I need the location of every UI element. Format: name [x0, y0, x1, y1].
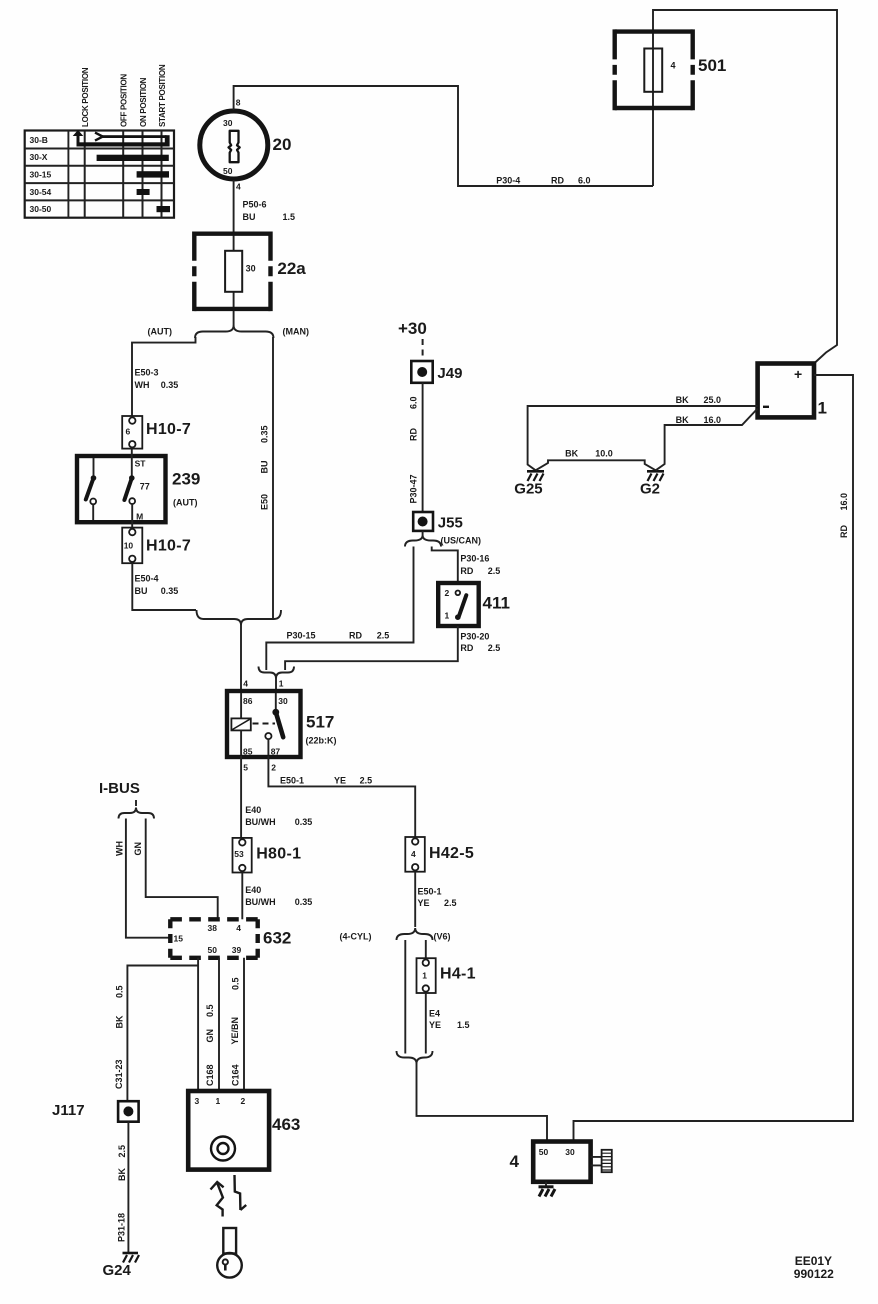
control module 632 — [170, 919, 291, 958]
starter pinion gear — [591, 1150, 612, 1172]
svg-text:2.5: 2.5 — [488, 566, 501, 576]
svg-text:2.5: 2.5 — [444, 898, 457, 908]
svg-text:2: 2 — [445, 588, 450, 598]
merge brace AUT/MAN above relay — [197, 610, 282, 625]
rotated labels RD 16.0 — [839, 493, 849, 538]
svg-text:G24: G24 — [103, 1262, 132, 1279]
split brace below 22a (AUT)/(MAN) — [148, 326, 310, 339]
svg-text:30: 30 — [246, 263, 256, 273]
svg-text:E50-3: E50-3 — [135, 368, 159, 378]
wire US/CAN branch to switch 411 — [432, 547, 458, 585]
svg-text:BK: BK — [117, 1168, 127, 1181]
svg-text:P31-18: P31-18 — [117, 1213, 127, 1242]
svg-text:0.35: 0.35 — [161, 586, 179, 596]
svg-text:(V6): (V6) — [434, 931, 451, 941]
svg-text:GN: GN — [205, 1029, 215, 1043]
wire label BK 25.0 — [676, 395, 721, 405]
table bar 30-50 — [157, 206, 171, 212]
svg-text:1: 1 — [422, 971, 427, 981]
connector H4-1 — [417, 958, 476, 993]
fuse 22a — [194, 232, 306, 312]
svg-text:YE: YE — [418, 898, 430, 908]
wire merge to relay pin 1 — [275, 677, 277, 691]
svg-text:2.5: 2.5 — [377, 631, 390, 641]
merge brace 4-CYL/V6 — [397, 1051, 433, 1064]
wire 411 pin 1 P30-20 to relay — [285, 626, 458, 670]
svg-text:BU/WH: BU/WH — [245, 897, 276, 907]
wire fuse 501 to battery plus — [653, 10, 837, 364]
svg-text:16.0: 16.0 — [839, 493, 849, 511]
wire 632 pin 50 to 463 pin 1 — [218, 958, 220, 1091]
split brace below J55 (US/CAN) — [405, 531, 481, 547]
node I-BUS — [99, 780, 154, 819]
rotated labels E50 BU 0.35 — [260, 425, 270, 510]
svg-text:4: 4 — [510, 1152, 520, 1171]
wire WH to 632 pin 15 — [126, 819, 170, 938]
wire label E40 BU/WH 0.35 — [245, 805, 312, 827]
svg-text:6: 6 — [126, 427, 131, 437]
svg-text:H80-1: H80-1 — [256, 846, 301, 863]
svg-text:H4-1: H4-1 — [440, 966, 476, 983]
remote key symbol — [217, 1228, 242, 1278]
svg-text:2.5: 2.5 — [117, 1145, 127, 1158]
wire V6 branch to H4-1 — [425, 940, 427, 958]
svg-text:25.0: 25.0 — [704, 395, 722, 405]
svg-text:BK: BK — [676, 395, 689, 405]
wire label E50-1 YE 2.5 — [280, 776, 372, 786]
svg-text:WH: WH — [114, 841, 124, 856]
svg-text:239: 239 — [172, 470, 200, 489]
svg-text:J55: J55 — [438, 515, 463, 532]
svg-text:8: 8 — [236, 98, 241, 108]
svg-text:RD: RD — [409, 428, 419, 441]
svg-text:+: + — [794, 366, 802, 382]
svg-text:E50-1: E50-1 — [280, 776, 304, 786]
table row labels 30-B 30-X 30-15 30-54 30-50 — [30, 135, 52, 214]
wire relay pin 2 to H42-5 — [268, 756, 415, 837]
connector H10-7 pin 6 — [122, 416, 191, 449]
svg-text:(MAN): (MAN) — [283, 326, 310, 336]
wire label BK 10.0 — [565, 449, 613, 459]
wire H42-5 down to split — [414, 872, 416, 927]
svg-text:20: 20 — [273, 135, 292, 154]
svg-text:H10-7: H10-7 — [146, 538, 191, 555]
svg-text:990122: 990122 — [794, 1267, 834, 1281]
svg-text:I-BUS: I-BUS — [99, 780, 140, 797]
svg-text:30-15: 30-15 — [30, 170, 52, 180]
svg-text:LOCK POSITION: LOCK POSITION — [81, 67, 90, 127]
wire 4-CYL branch — [404, 940, 406, 1054]
ground G2 — [640, 471, 664, 497]
ignition switch 20 — [200, 98, 292, 192]
battery 1 — [758, 364, 827, 418]
wire key pin 4 to fuse 22a — [233, 180, 235, 326]
table bar 30-B with return arrow — [73, 130, 170, 147]
relay 517 switch contact — [265, 693, 283, 755]
svg-text:GN: GN — [133, 842, 143, 856]
svg-text:53: 53 — [234, 849, 244, 859]
svg-text:4: 4 — [671, 61, 676, 71]
wire H80-1 to 632 pin 4 — [241, 873, 243, 920]
wire relay pin 5 to H80-1 — [240, 756, 242, 838]
svg-text:BU: BU — [243, 212, 256, 222]
svg-text:RD: RD — [349, 631, 362, 641]
wire label P30-15 RD 2.5 — [287, 631, 390, 641]
junction J117 — [52, 1101, 139, 1122]
wire label E50-1 YE 2.5 lower — [418, 887, 457, 908]
wire AUT branch to H10-7 — [132, 337, 196, 416]
svg-text:EE01Y: EE01Y — [795, 1254, 832, 1268]
ground G24 — [103, 1253, 140, 1279]
relay 517 coil — [231, 693, 275, 755]
svg-text:BK: BK — [565, 449, 578, 459]
svg-text:85: 85 — [243, 747, 253, 757]
svg-text:1.5: 1.5 — [283, 212, 296, 222]
junction J49 — [411, 361, 462, 383]
svg-text:10.0: 10.0 — [595, 449, 613, 459]
connector H42-5 — [405, 837, 474, 872]
svg-text:P50-6: P50-6 — [243, 200, 267, 210]
svg-text:E50-4: E50-4 — [135, 574, 159, 584]
wire J49 to J55 — [422, 383, 424, 512]
switch 411 — [438, 583, 510, 626]
svg-text:E50-1: E50-1 — [418, 887, 442, 897]
svg-text:0.5: 0.5 — [231, 977, 241, 990]
svg-text:RD: RD — [460, 643, 473, 653]
svg-text:30-X: 30-X — [30, 152, 48, 162]
svg-text:(AUT): (AUT) — [173, 498, 198, 508]
svg-text:RD: RD — [551, 176, 564, 186]
wire merge to relay 517 pin 4 — [240, 624, 242, 691]
svg-text:BU: BU — [135, 586, 148, 596]
svg-text:0.35: 0.35 — [161, 380, 179, 390]
svg-text:30-54: 30-54 — [30, 187, 52, 197]
ignition switch unit 239 — [77, 449, 200, 528]
svg-text:3: 3 — [195, 1096, 200, 1106]
svg-text:J117: J117 — [52, 1102, 85, 1119]
svg-text:H10-7: H10-7 — [146, 421, 191, 438]
svg-text:22a: 22a — [277, 259, 306, 278]
connector H10-7 pin 10 — [122, 528, 191, 564]
svg-text:87: 87 — [271, 747, 281, 757]
svg-text:(AUT): (AUT) — [148, 326, 173, 336]
relay 517 — [227, 679, 337, 773]
svg-text:2: 2 — [241, 1096, 246, 1106]
svg-text:1.5: 1.5 — [457, 1020, 470, 1030]
svg-text:BU: BU — [260, 461, 270, 474]
rotated labels BK 2.5 P31-18 — [117, 1145, 127, 1242]
svg-text:E4: E4 — [429, 1009, 440, 1019]
wire label E4 YE 1.5 — [429, 1009, 470, 1030]
junction J55 — [413, 512, 463, 532]
wire 632 pin 39 to 463 pin 2 — [243, 958, 245, 1091]
svg-text:0.35: 0.35 — [260, 425, 270, 443]
rotated labels YE/BN 0.5 C164 — [230, 977, 240, 1086]
svg-text:1: 1 — [818, 399, 827, 418]
svg-text:M: M — [136, 511, 143, 521]
key position table grid — [25, 131, 174, 218]
wire label BK 16.0 — [676, 415, 721, 425]
svg-text:(22b:K): (22b:K) — [306, 736, 337, 746]
svg-text:1: 1 — [216, 1096, 221, 1106]
svg-text:4: 4 — [243, 679, 248, 689]
svg-text:2: 2 — [271, 763, 276, 773]
svg-text:38: 38 — [208, 923, 218, 933]
svg-text:501: 501 — [698, 56, 726, 75]
svg-text:5: 5 — [243, 763, 248, 773]
svg-text:50: 50 — [223, 166, 233, 176]
svg-text:86: 86 — [243, 696, 253, 706]
wire label E50-4 BU 0.35 — [135, 574, 179, 596]
svg-text:2.5: 2.5 — [488, 643, 501, 653]
svg-text:4: 4 — [236, 923, 241, 933]
svg-text:463: 463 — [272, 1115, 300, 1134]
svg-text:P30-47: P30-47 — [409, 474, 419, 503]
svg-text:RD: RD — [460, 566, 473, 576]
wire label E50-3 WH 0.35 — [135, 368, 179, 390]
svg-text:4: 4 — [236, 182, 241, 192]
connector H80-1 — [233, 838, 302, 873]
svg-text:P30-4: P30-4 — [496, 176, 520, 186]
drawing id EE01Y 990122 — [794, 1254, 834, 1281]
svg-text:+30: +30 — [398, 319, 427, 338]
svg-text:P30-16: P30-16 — [460, 554, 489, 564]
svg-text:E40: E40 — [245, 805, 261, 815]
fuse 501 — [615, 29, 727, 110]
svg-text:0.35: 0.35 — [295, 897, 313, 907]
split brace (4-CYL)/(V6) — [340, 928, 451, 941]
wire from H10-7 pin 10 down and right — [132, 563, 196, 610]
svg-text:39: 39 — [232, 945, 242, 955]
rotated labels P30-47 RD 6.0 — [409, 396, 419, 503]
wire battery minus BK 16.0 to G2 — [656, 409, 758, 471]
rotated labels BK 0.5 — [114, 985, 124, 1089]
svg-text:0.5: 0.5 — [205, 1004, 215, 1017]
wire H4-1 down — [425, 993, 427, 1054]
svg-text:YE/BN: YE/BN — [230, 1017, 240, 1045]
table bar 30-54 — [137, 189, 150, 195]
svg-text:30: 30 — [278, 696, 288, 706]
svg-text:30: 30 — [223, 118, 233, 128]
svg-text:G25: G25 — [514, 481, 542, 498]
svg-text:50: 50 — [539, 1147, 549, 1157]
wire key pin 8 to fuse 501 — [234, 86, 653, 186]
table column headers rotated — [81, 64, 167, 127]
wire label P30-20 RD 2.5 — [460, 632, 500, 653]
starter motor 4 — [510, 1142, 591, 1182]
wire label P50-6 BU 1.5 — [243, 200, 296, 222]
wire 632 to 463 pin 3 with BK branch — [127, 958, 198, 1101]
wire battery minus BK 25.0 to G25 — [528, 406, 758, 470]
svg-text:C168: C168 — [205, 1064, 215, 1086]
svg-text:16.0: 16.0 — [704, 415, 722, 425]
table bar 30-X — [97, 155, 169, 161]
svg-text:P30-20: P30-20 — [460, 632, 489, 642]
merge brace above relay pin 1 — [259, 667, 295, 679]
svg-text:YE: YE — [334, 776, 346, 786]
svg-text:YE: YE — [429, 1020, 441, 1030]
svg-text:H42-5: H42-5 — [429, 845, 474, 862]
starter ground — [539, 1182, 556, 1197]
svg-text:ON POSITION: ON POSITION — [139, 77, 148, 127]
svg-text:J49: J49 — [437, 365, 462, 382]
svg-text:G2: G2 — [640, 481, 660, 498]
svg-text:411: 411 — [483, 594, 510, 613]
table bar 30-15 — [137, 171, 169, 177]
wire MAN branch — [272, 337, 274, 618]
svg-text:WH: WH — [135, 380, 150, 390]
node +30 — [398, 319, 427, 361]
svg-text:E50: E50 — [260, 494, 270, 510]
svg-text:(4-CYL): (4-CYL) — [340, 931, 372, 941]
ground G25 — [514, 471, 544, 497]
svg-text:1: 1 — [445, 611, 450, 621]
radio wave arrows — [211, 1175, 247, 1217]
svg-text:BU/WH: BU/WH — [245, 817, 276, 827]
wire BK 10.0 G25 to G2 — [536, 460, 656, 470]
svg-text:30-50: 30-50 — [30, 204, 52, 214]
svg-text:30-B: 30-B — [30, 135, 48, 145]
svg-text:632: 632 — [263, 929, 291, 948]
wire label E40 BU/WH 0.35 lower — [245, 885, 312, 907]
svg-text:BK: BK — [115, 1015, 125, 1028]
svg-text:(US/CAN): (US/CAN) — [441, 535, 482, 545]
svg-text:START POSITION: START POSITION — [158, 64, 167, 127]
svg-text:6.0: 6.0 — [409, 396, 419, 409]
svg-text:2.5: 2.5 — [360, 776, 373, 786]
svg-text:C164: C164 — [231, 1064, 241, 1086]
svg-text:77: 77 — [140, 481, 150, 491]
wire label P30-4 RD 6.0 — [496, 176, 590, 186]
wire merge to starter pin 50 — [417, 1062, 548, 1142]
wire label P30-16 RD 2.5 — [460, 554, 500, 576]
svg-text:C31-23: C31-23 — [114, 1059, 124, 1089]
svg-text:ST: ST — [135, 458, 147, 468]
svg-text:E40: E40 — [245, 885, 261, 895]
svg-text:0.35: 0.35 — [295, 817, 313, 827]
wire J55 left branch P30-15 to relay — [266, 547, 413, 671]
svg-text:P30-15: P30-15 — [287, 631, 316, 641]
svg-text:BK: BK — [676, 415, 689, 425]
svg-text:30: 30 — [565, 1147, 575, 1157]
wire J117 to G24 — [127, 1122, 129, 1253]
rotated labels GN 0.5 C168 — [205, 1004, 215, 1086]
svg-text:6.0: 6.0 — [578, 176, 591, 186]
svg-text:50: 50 — [208, 945, 218, 955]
svg-text:10: 10 — [124, 541, 134, 551]
svg-text:517: 517 — [306, 713, 334, 732]
svg-text:15: 15 — [174, 934, 184, 944]
svg-text:RD: RD — [839, 525, 849, 538]
wire battery plus to starter pin 30, RD 16.0 — [574, 375, 854, 1142]
receiver unit 463 — [188, 1091, 300, 1170]
svg-text:OFF POSITION: OFF POSITION — [120, 74, 129, 127]
svg-text:4: 4 — [411, 849, 416, 859]
wire GN to 632 pin 38 — [146, 819, 218, 920]
svg-text:1: 1 — [279, 679, 284, 689]
svg-text:0.5: 0.5 — [115, 985, 125, 998]
